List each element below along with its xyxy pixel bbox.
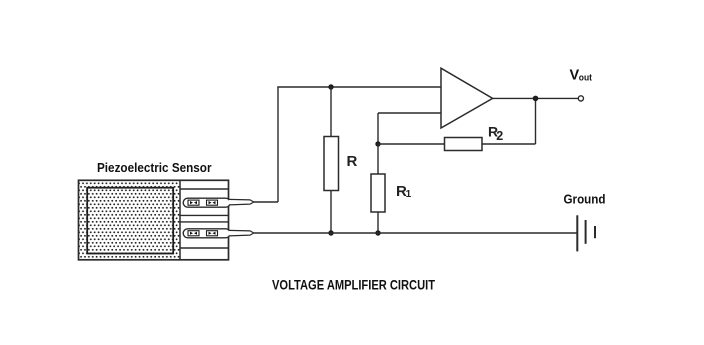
svg-text:1: 1 [406, 189, 412, 200]
wire R2 right to feedback riser [482, 143, 536, 145]
sensor layer line 3 [180, 221, 229, 223]
sensor layer line 2 [180, 214, 229, 216]
label R [347, 153, 358, 170]
node junction bottom rail / R [328, 230, 333, 235]
piezoelectric sensor hatched body [79, 180, 181, 259]
wire node to R2 left [378, 143, 445, 145]
label VOLTAGE AMPLIFIER CIRCUIT [272, 277, 436, 292]
op-amp U1 [441, 68, 493, 128]
sensor terminal 2 (bottom electrode connector) [183, 229, 254, 238]
sensor terminal 1 (top electrode connector) [183, 198, 254, 207]
label Vout [570, 67, 593, 83]
svg-text:VOLTAGE AMPLIFIER CIRCUIT: VOLTAGE AMPLIFIER CIRCUIT [272, 277, 436, 292]
svg-text:Piezoelectric Sensor: Piezoelectric Sensor [97, 161, 212, 175]
piezoelectric sensor outer case [79, 180, 229, 259]
node junction output / feedback [533, 96, 539, 102]
label R2 [488, 123, 503, 143]
node junction top rail / R [328, 84, 333, 89]
piezoelectric sensor inner plate [87, 188, 173, 254]
wire R1 top lead [377, 144, 379, 174]
wire op-amp output [493, 97, 578, 99]
resistor R1 [371, 174, 385, 212]
wire op-amp inverting input [378, 112, 441, 114]
sensor layer line 1 [180, 188, 229, 190]
wire from terminal 2 to ground (bottom rail) [254, 232, 577, 234]
wire feedback riser [535, 98, 537, 144]
wire R1 bottom lead [377, 212, 379, 233]
wire from terminal 1 to riser [254, 201, 278, 203]
output terminal circle [578, 96, 583, 101]
svg-text:R: R [347, 153, 358, 170]
node junction inverting / R1 / R2 [375, 141, 380, 146]
label Ground [564, 192, 606, 206]
wire R bottom lead [330, 191, 332, 234]
resistor R [324, 137, 339, 191]
resistor R2 [445, 138, 483, 151]
wire top rail to op-amp noninverting input [277, 86, 441, 88]
sensor layer line 4 [180, 247, 229, 249]
ground symbol [577, 215, 595, 251]
wire riser to top rail [277, 87, 279, 202]
label R1 [396, 183, 412, 200]
wire R top lead [330, 87, 332, 137]
wire inverting riser [377, 113, 379, 144]
label Piezoelectric Sensor [97, 161, 212, 175]
svg-text:out: out [579, 73, 593, 84]
svg-text:2: 2 [496, 129, 503, 143]
svg-text:Ground: Ground [564, 192, 606, 206]
node junction bottom rail / R1 [375, 230, 380, 235]
